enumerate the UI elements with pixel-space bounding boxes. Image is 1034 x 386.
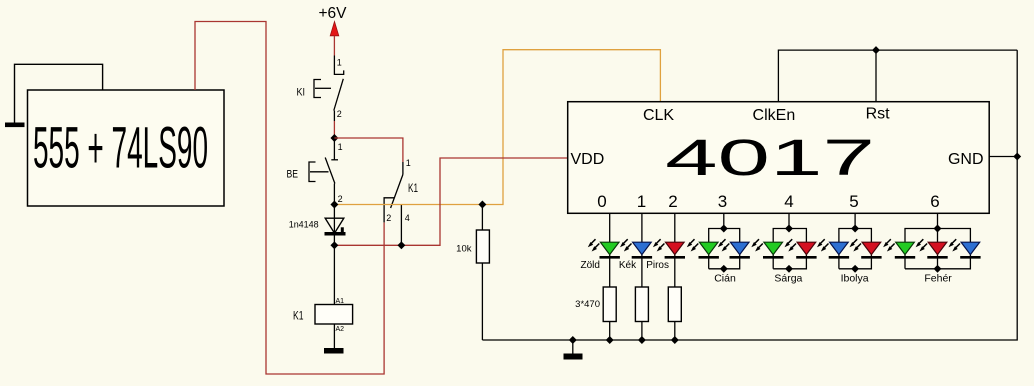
svg-text:K1: K1 xyxy=(408,181,418,195)
svg-text:2: 2 xyxy=(337,109,342,119)
svg-text:6: 6 xyxy=(930,192,939,211)
svg-text:BE: BE xyxy=(287,169,299,181)
svg-text:4: 4 xyxy=(784,192,793,211)
svg-text:+6V: +6V xyxy=(318,5,347,22)
svg-text:CLK: CLK xyxy=(643,107,674,124)
svg-text:4017: 4017 xyxy=(665,129,875,186)
svg-text:GND: GND xyxy=(948,151,984,168)
svg-text:1: 1 xyxy=(338,142,343,152)
svg-text:1: 1 xyxy=(637,192,646,211)
svg-text:2: 2 xyxy=(668,192,677,211)
svg-text:2: 2 xyxy=(338,194,343,204)
svg-text:K1: K1 xyxy=(293,309,304,323)
svg-text:KI: KI xyxy=(297,87,306,99)
svg-text:1: 1 xyxy=(406,158,411,168)
svg-text:A2: A2 xyxy=(336,326,345,333)
svg-text:3: 3 xyxy=(718,192,727,211)
svg-text:3*470: 3*470 xyxy=(575,299,600,310)
svg-text:Cián: Cián xyxy=(714,273,736,285)
svg-text:Ibolya: Ibolya xyxy=(841,273,869,285)
svg-text:1n4148: 1n4148 xyxy=(289,220,319,231)
svg-text:5: 5 xyxy=(849,192,858,211)
svg-text:A1: A1 xyxy=(336,298,345,305)
svg-text:0: 0 xyxy=(597,192,606,211)
svg-text:ClkEn: ClkEn xyxy=(753,107,796,124)
svg-text:555 + 74LS90: 555 + 74LS90 xyxy=(33,115,208,180)
svg-text:Piros: Piros xyxy=(646,260,669,271)
svg-text:Sárga: Sárga xyxy=(774,273,802,285)
svg-text:Zöld: Zöld xyxy=(580,260,599,271)
svg-text:Fehér: Fehér xyxy=(924,273,952,285)
svg-text:4: 4 xyxy=(405,213,410,223)
svg-text:2: 2 xyxy=(386,213,391,223)
svg-text:1: 1 xyxy=(337,58,342,68)
svg-text:Kék: Kék xyxy=(619,260,637,271)
svg-text:10k: 10k xyxy=(456,244,472,255)
svg-text:Rst: Rst xyxy=(866,106,891,123)
svg-text:VDD: VDD xyxy=(571,151,605,168)
